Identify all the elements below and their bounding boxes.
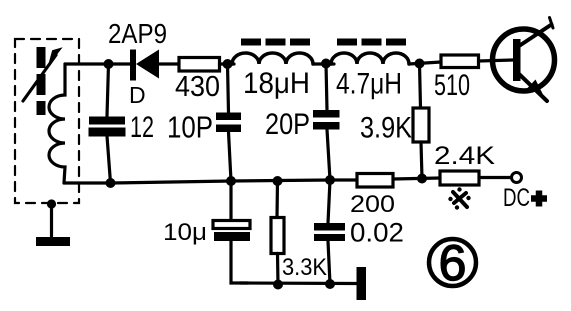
variable tuning arrow (23, 49, 60, 101)
node: shield to ground (47, 199, 56, 208)
wire: top rail left (65, 62, 131, 65)
node: bus / 10u (226, 176, 236, 186)
wire: L3 to R510 (409, 62, 441, 64)
diode D 2AP9 (130, 50, 159, 81)
resistor 2.4K (440, 171, 479, 185)
core of 4.7uH (337, 39, 406, 46)
node: rail / 10P (223, 59, 233, 69)
ground (main) (357, 267, 367, 300)
svg-text:510: 510 (434, 69, 470, 102)
svg-text:4.7μH: 4.7μH (336, 68, 402, 101)
svg-text:D: D (129, 82, 146, 108)
node: bus / 0.02 (325, 175, 335, 185)
svg-text:430: 430 (175, 71, 220, 103)
node: bus / C12 (106, 178, 116, 188)
inductor 18uH (232, 53, 313, 64)
node: bottom / 3.3K (273, 280, 283, 290)
ferrite core bar (37, 47, 46, 115)
ground (shield) (36, 237, 70, 246)
svg-text:200: 200 (350, 191, 395, 218)
wire: R200 to R2.4K (393, 178, 440, 179)
capacitor 12 (89, 64, 126, 183)
node: bus / 3.3K (273, 176, 283, 186)
svg-text:DC: DC (503, 184, 530, 212)
resistor 3.9K (413, 64, 429, 179)
wire: R430 to L2 (220, 62, 235, 65)
core of 18uH (241, 39, 310, 46)
capacitor 10u electrolytic (213, 181, 250, 283)
inductor 4.7uH (331, 53, 409, 64)
antenna coil L1 (49, 64, 65, 183)
svg-text:3.9K: 3.9K (360, 112, 412, 145)
wire: shield ground lead (50, 204, 53, 236)
svg-text:12: 12 (130, 111, 154, 144)
reference mark (448, 187, 470, 209)
svg-text:20P: 20P (265, 108, 310, 141)
figure number 6 (429, 235, 476, 291)
svg-text:10μ: 10μ (163, 219, 207, 246)
node: bus / 3.9K bottom (417, 174, 427, 184)
transistor Q1 (493, 18, 555, 102)
middle bus wire (111, 180, 357, 183)
resistor 510 (441, 55, 479, 68)
resistor 200 (357, 174, 393, 188)
wire: diode to R430 (159, 62, 179, 65)
resistor 3.3K (271, 181, 284, 285)
svg-text:3.3K: 3.3K (282, 254, 327, 281)
antenna shield dashed box (15, 39, 79, 203)
svg-text:0.02: 0.02 (350, 218, 404, 248)
node: rail / 20P (321, 59, 331, 69)
svg-text:2.4K: 2.4K (434, 142, 495, 170)
node: top rail / C12 (104, 59, 114, 69)
capacitor 10P (216, 64, 241, 181)
terminal DC+ (512, 173, 522, 183)
wire: coil bottom to bus (64, 181, 111, 184)
svg-text:10P: 10P (167, 110, 213, 145)
capacitor 0.02 (314, 180, 345, 284)
node: bottom / 0.02 (325, 279, 335, 289)
node: rail / 3.9K (415, 59, 425, 69)
svg-text:18μH: 18μH (243, 67, 310, 100)
wire: R510 to base (479, 60, 514, 61)
wire: R2.4K to terminal (479, 176, 511, 179)
wire: L2 to L3 (313, 62, 334, 65)
bottom wire (240, 281, 356, 285)
capacitor 20P (313, 64, 340, 181)
svg-text:2AP9: 2AP9 (108, 18, 167, 49)
label DC+ (503, 184, 547, 212)
resistor 430 (179, 58, 220, 72)
svg-text:6: 6 (439, 235, 467, 291)
